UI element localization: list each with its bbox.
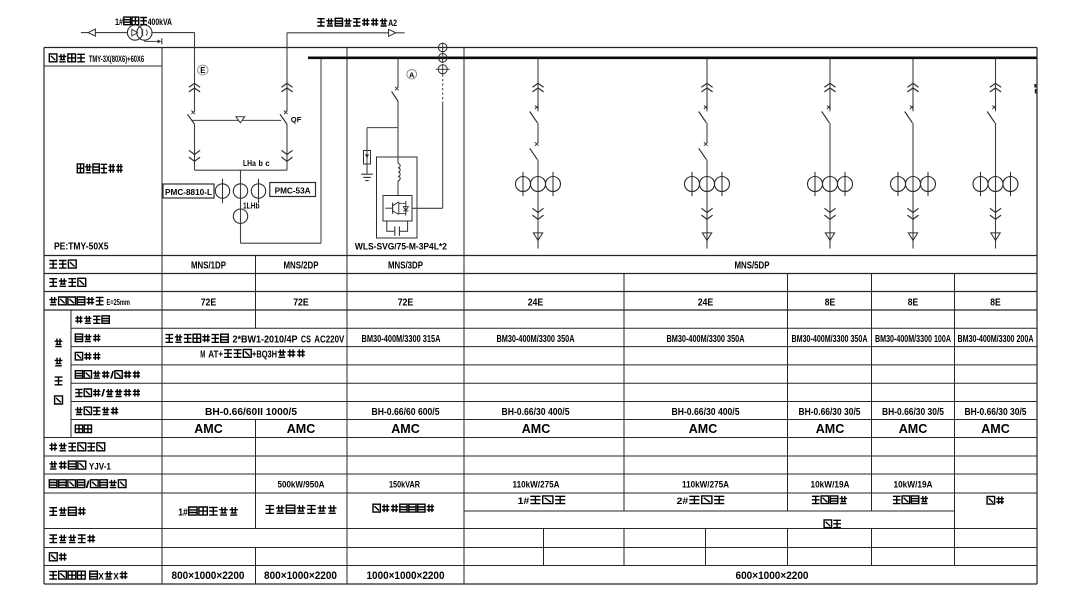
feeder F5 wire and drawout contacts: [701, 59, 712, 111]
cell 800×1000×2200 c1: [172, 570, 245, 582]
cell 150kVAR: [389, 479, 420, 490]
wire incomer horizontal: [81, 32, 195, 34]
svg-text:800×1000×2200: 800×1000×2200: [172, 570, 245, 582]
svg-text:QF: QF: [291, 115, 302, 124]
cell BM30-400M/3300 100A: [875, 334, 951, 345]
transformer T1 1#工作变 400kVA: [127, 25, 152, 40]
load arrow F7: [908, 233, 917, 241]
svg-text:AT+: AT+: [208, 350, 223, 361]
CT LHb: [233, 184, 247, 198]
tap terminal 3: [436, 64, 450, 75]
drawout contact lower F7: [907, 208, 918, 219]
svg-text:BH-0.66/30 30/5: BH-0.66/30 30/5: [965, 407, 1027, 418]
cell 2#直流柜: [677, 495, 725, 506]
wire F4 lower: [537, 160, 539, 249]
svg-text:AMC: AMC: [689, 421, 718, 436]
CT group F5: [685, 172, 730, 196]
cell drawer height 72E: [201, 297, 217, 308]
isolator F5: [699, 123, 708, 160]
wire breaker to drawout: [194, 124, 196, 170]
load arrow F5: [702, 233, 711, 241]
svg-text:AMC: AMC: [194, 421, 223, 436]
isolator F4: [530, 123, 539, 160]
converter module U1 (IGBT): [383, 196, 412, 222]
wire F5 lower: [706, 160, 708, 249]
svg-text:A2: A2: [388, 18, 397, 29]
row label 电流互感器: [75, 407, 118, 415]
svg-text:A: A: [409, 70, 415, 79]
svg-text:800×1000×2200: 800×1000×2200: [264, 570, 337, 582]
busbar TMY-3X(80X6)+60X6: [308, 56, 1037, 59]
cell AMC: [816, 421, 845, 436]
wire switch to SVG box: [397, 101, 399, 164]
breaker F6 BM30-400M: [822, 105, 831, 122]
wire CT drop: [240, 170, 242, 243]
svg-text:10kW/19A: 10kW/19A: [811, 479, 850, 490]
row label 回路名称: [49, 507, 85, 515]
wire QF drop: [286, 33, 288, 112]
svg-text:110kW/275A: 110kW/275A: [513, 479, 560, 490]
cell AMC: [981, 421, 1010, 436]
breaker F7 BM30-400M: [905, 105, 914, 122]
svg-text:BM30-400M/3300 350A: BM30-400M/3300 350A: [667, 334, 745, 345]
breaker F5 BM30-400M: [699, 105, 708, 122]
feeder F6 wire and drawout contacts: [824, 59, 835, 111]
row label 柜编号: [49, 260, 76, 268]
svg-text:MNS/1DP: MNS/1DP: [191, 260, 226, 271]
cell M AT+二连锁+BQ3H控制器: [200, 349, 305, 360]
svg-text:BH-0.66/60II 1000/5: BH-0.66/60II 1000/5: [205, 407, 298, 418]
svg-text:24E: 24E: [698, 297, 714, 308]
drawout contact upper (incomer): [189, 83, 200, 92]
drawout contact lower F8: [990, 208, 1001, 219]
switch SVG terminal: [395, 87, 399, 91]
svg-text:AMC: AMC: [981, 421, 1010, 436]
wire converter to phase-tap: [412, 207, 443, 209]
row label 负荷容量/计算电流: [49, 480, 126, 491]
cell drawer height 8E: [908, 297, 918, 308]
svg-text:/: /: [110, 370, 114, 381]
svg-text:1#: 1#: [115, 17, 124, 28]
cell BH-0.66/30 400/5: [502, 407, 570, 418]
svg-text:CS: CS: [301, 335, 311, 346]
svg-text:M: M: [200, 350, 205, 361]
svg-text:MNS/2DP: MNS/2DP: [284, 260, 319, 271]
cell 500kW/950A: [278, 479, 325, 490]
inductor L1: [398, 164, 400, 181]
svg-text:E=25mm: E=25mm: [107, 297, 130, 307]
cell 110kW/275A c5: [682, 479, 729, 490]
svg-text:PMC-53A: PMC-53A: [275, 186, 311, 196]
svg-text:8E: 8E: [825, 297, 835, 308]
svg-text:1#: 1#: [518, 495, 530, 506]
svg-text:BM30-400M/3300 350A: BM30-400M/3300 350A: [497, 334, 575, 345]
svg-text:c: c: [265, 158, 269, 168]
breaker F4 BM30-400M: [530, 105, 539, 122]
svg-text:LHa: LHa: [243, 158, 256, 168]
svg-text:PMC-8810-L: PMC-8810-L: [165, 187, 212, 197]
wire metering return loop: [241, 59, 322, 243]
svg-text:BH-0.66/30 400/5: BH-0.66/30 400/5: [502, 407, 570, 418]
arrow to diesel generator A2: [389, 29, 396, 36]
drawout contact lower (incomer): [189, 150, 200, 161]
cell 照明: [824, 520, 841, 528]
feeder F4 wire and drawout contacts: [532, 59, 543, 111]
capacitor C1 dc-link: [387, 221, 408, 236]
svg-text:BH-0.66/30 400/5: BH-0.66/30 400/5: [672, 407, 740, 418]
cell drawer height 24E: [698, 297, 714, 308]
svg-text:10kW/19A: 10kW/19A: [894, 479, 933, 490]
cell MNS/3DP: [388, 260, 423, 271]
wire F7 lower: [912, 123, 914, 249]
cell 双电源自动开关 2*BW1-2010/4P CS AC220V: [166, 334, 345, 345]
svg-text:AMC: AMC: [899, 421, 928, 436]
group label 主要设备 vertical: [55, 339, 63, 405]
wire phase-tap riser: [442, 75, 444, 209]
row label 电缆型号 YJV-1: [49, 461, 111, 471]
cell drawer height 8E: [825, 297, 835, 308]
svg-text:500kW/950A: 500kW/950A: [278, 479, 325, 490]
svg-text:+BQ3H: +BQ3H: [252, 350, 277, 361]
CT group F6: [808, 172, 853, 196]
row label 用电设备编号: [49, 443, 104, 451]
cell MNS/5DP: [735, 260, 770, 271]
cell 1#工作变进线: [178, 507, 238, 518]
svg-text:72E: 72E: [293, 297, 309, 308]
row label 仪表: [75, 425, 91, 433]
svg-text:BH-0.66/30 30/5: BH-0.66/30 30/5: [799, 407, 861, 418]
svg-text:PE:TMY-50X5: PE:TMY-50X5: [54, 241, 109, 252]
label QF: [291, 115, 302, 124]
cell 1#直流柜: [518, 495, 566, 506]
svg-text:AMC: AMC: [391, 421, 420, 436]
cell AMC: [689, 421, 718, 436]
cell MNS/1DP: [191, 260, 226, 271]
svg-text:TMY-3X(80X6)+60X6: TMY-3X(80X6)+60X6: [89, 53, 144, 64]
svg-text:X: X: [113, 570, 119, 581]
node A meter loop: [407, 70, 417, 80]
ground: [361, 164, 373, 181]
svg-text:1000×1000×2200: 1000×1000×2200: [367, 570, 445, 582]
cell AMC: [194, 421, 223, 436]
cell 10kW/19A c7: [894, 479, 933, 490]
svg-text:8E: 8E: [908, 297, 918, 308]
svg-text:1#: 1#: [178, 507, 188, 518]
CT 1LHb neutral: [233, 209, 247, 223]
svg-text:2*BW1-2010/4P: 2*BW1-2010/4P: [233, 335, 298, 346]
row label 接触器: [75, 352, 100, 360]
drawout contact lower F6: [824, 208, 835, 219]
wire QF to drawout: [286, 124, 288, 170]
drawout contact lower F5: [701, 208, 712, 219]
svg-text:BH-0.66/30 30/5: BH-0.66/30 30/5: [882, 407, 944, 418]
cell AMC: [391, 421, 420, 436]
svg-text:BM30-400M/3300 100A: BM30-400M/3300 100A: [875, 334, 951, 345]
feeder F7 wire and drawout contacts: [907, 59, 918, 111]
breaker F8 BM30-400M: [987, 105, 996, 122]
wire U-bottom joining incomers: [195, 169, 288, 171]
surge arrester F1: [364, 151, 371, 165]
CT group F7: [891, 172, 936, 196]
transformer neutral tap: [144, 38, 161, 44]
SVG unit enclosure WLS-SVG: [377, 157, 418, 238]
cell AMC: [287, 421, 316, 436]
svg-text:/: /: [86, 480, 90, 491]
load arrow F6: [825, 233, 834, 241]
svg-text:/: /: [101, 389, 105, 400]
svg-text:AMC: AMC: [522, 421, 551, 436]
svg-text:400kVA: 400kVA: [148, 17, 172, 28]
CT group F4: [516, 172, 561, 196]
cell BM30-400M/3300 350A: [792, 334, 868, 345]
cell 10kW/19A c6: [811, 479, 850, 490]
svg-text:b: b: [259, 158, 263, 168]
load arrow F8: [991, 233, 1000, 241]
row label 热继电器/保护器: [75, 370, 140, 381]
row label 母线规格: [49, 53, 144, 64]
cell MNS/2DP: [284, 260, 319, 271]
row label 柜体尺寸 宽X深X高: [49, 570, 127, 581]
interlock symbol on bridge: [236, 117, 245, 123]
svg-text:AMC: AMC: [816, 421, 845, 436]
cell drawer height 72E: [398, 297, 414, 308]
svg-text:72E: 72E: [398, 297, 414, 308]
svg-text:YJV-1: YJV-1: [89, 461, 111, 471]
svg-text:110kW/275A: 110kW/275A: [682, 479, 729, 490]
label WLS-SVG/75-M-3P4L*2: [355, 241, 447, 252]
breaker QF terminal: [284, 111, 288, 115]
cell BH-0.66/60 600/5: [372, 407, 440, 418]
row label 抽屉单元高度 E=25mm: [49, 297, 130, 307]
cell BH-0.66/60II 1000/5: [205, 407, 298, 418]
svg-text:E: E: [200, 66, 205, 75]
CT group F8: [973, 172, 1018, 196]
wire arrester branch: [367, 128, 398, 151]
wire incomer drop: [194, 33, 196, 112]
cell AMC: [522, 421, 551, 436]
wire SVG drop: [397, 59, 399, 87]
drawout contact lower (QF): [281, 150, 292, 161]
cell BH-0.66/30 30/5: [965, 407, 1027, 418]
label LHa b c: [243, 158, 270, 168]
tie bridge wire: [193, 119, 282, 121]
cell BH-0.66/30 30/5: [799, 407, 861, 418]
cell 交流灯具 c6: [812, 496, 847, 504]
cell BH-0.66/30 30/5: [882, 407, 944, 418]
drawout contact upper (QF): [281, 83, 292, 92]
row label 回路编号: [49, 278, 85, 286]
wire F8 lower: [995, 123, 997, 249]
svg-text:MNS/3DP: MNS/3DP: [388, 260, 423, 271]
label 1LHb: [243, 202, 260, 211]
label 一次方案图形: [77, 164, 122, 173]
svg-text:WLS-SVG/75-M-3P4L*2: WLS-SVG/75-M-3P4L*2: [355, 241, 447, 252]
CT LHa: [215, 179, 229, 203]
cell 备用: [987, 496, 1004, 504]
svg-text:BM30-400M/3300 350A: BM30-400M/3300 350A: [792, 334, 868, 345]
cell drawer height 72E: [293, 297, 309, 308]
svg-text:AC220V: AC220V: [314, 335, 344, 346]
svg-text:24E: 24E: [528, 297, 544, 308]
svg-text:MNS/5DP: MNS/5DP: [735, 260, 770, 271]
feeder F8 wire and drawout contacts: [990, 59, 1001, 111]
load arrow F4: [533, 233, 542, 241]
svg-text:X: X: [98, 570, 104, 581]
svg-text:72E: 72E: [201, 297, 217, 308]
tap terminal 1: [438, 43, 447, 53]
row label 二次原理图: [49, 535, 95, 543]
breaker QF blade: [280, 114, 287, 124]
cell drawer height 8E: [990, 297, 1000, 308]
cell BM30-400M/3300 350A: [667, 334, 745, 345]
meter PMC-53A: [270, 183, 316, 197]
cell 800×1000×2200 c2: [264, 570, 337, 582]
row label 备注: [49, 553, 66, 561]
breaker 1DP blade: [188, 114, 195, 124]
wire inductor to converter: [397, 181, 399, 196]
svg-text:BM30-400M/3300 200A: BM30-400M/3300 200A: [958, 334, 1034, 345]
cell BM30-400M/3300 350A: [497, 334, 575, 345]
svg-text:BH-0.66/60 600/5: BH-0.66/60 600/5: [372, 407, 440, 418]
svg-text:BM30-400M/3300 315A: BM30-400M/3300 315A: [362, 334, 441, 345]
svg-text:2#: 2#: [677, 495, 689, 506]
cell BH-0.66/30 400/5: [672, 407, 740, 418]
CT LHc: [251, 179, 265, 203]
scan artifact right edge: [1034, 84, 1036, 94]
arrow to upstream source: [88, 29, 95, 36]
cell 交流灯具 c7: [893, 496, 928, 504]
svg-text:8E: 8E: [990, 297, 1000, 308]
cell 110kW/275A c4: [513, 479, 560, 490]
svg-text:600×1000×2200: 600×1000×2200: [736, 570, 809, 582]
cell BM30-400M/3300 315A: [362, 334, 441, 345]
switch SVG blade: [392, 92, 398, 101]
meter PMC-8810-L: [163, 184, 214, 198]
cell 柴油发电机进线: [266, 505, 337, 513]
svg-text:AMC: AMC: [287, 421, 316, 436]
row label 断路器: [75, 334, 100, 342]
wire diesel feed horizontal: [287, 32, 405, 34]
cell BM30-400M/3300 200A: [958, 334, 1034, 345]
label 1#工作变400kVA: [115, 17, 172, 28]
breaker 1DP terminal: [191, 111, 195, 115]
cell 1000×1000×2200: [367, 570, 445, 582]
cell drawer height 24E: [528, 297, 544, 308]
wire F6 lower: [829, 123, 831, 249]
tap terminal 2: [438, 53, 447, 63]
row label 隔离开关: [75, 316, 109, 324]
svg-text:1LHb: 1LHb: [243, 202, 260, 211]
node E current loop: [198, 65, 208, 75]
label 柴油发电机组馈线A2: [317, 18, 397, 29]
label PE:TMY-50X5: [54, 241, 109, 252]
row label 变压器/软起动器: [75, 389, 140, 400]
svg-text:150kVAR: 150kVAR: [389, 479, 420, 490]
cell 静止无功发生器: [373, 504, 434, 512]
cell AMC: [899, 421, 928, 436]
cell 600×1000×2200: [736, 570, 809, 582]
drawout contact lower F4: [532, 208, 543, 219]
